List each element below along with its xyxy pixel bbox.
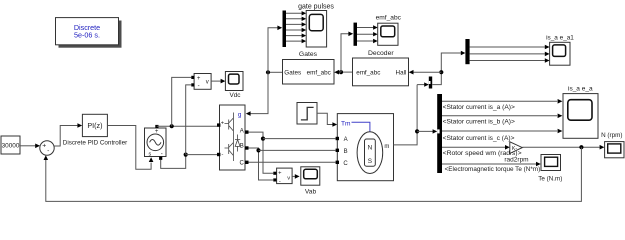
svg-text:-: -: [47, 148, 49, 155]
source - port square: [159, 157, 162, 160]
wire stator current is_b: [442, 115, 557, 117]
scope Vdc: [225, 72, 243, 91]
svg-text:v: v: [206, 80, 209, 86]
svg-text:Gates: Gates: [284, 69, 301, 76]
wire bridge C to motor C: [249, 161, 336, 163]
node emf: [339, 70, 343, 74]
voltage measurement Vdc block: [194, 74, 211, 90]
scope is_a e_a1: [550, 42, 570, 65]
node m branch: [415, 129, 419, 133]
wire node B to motor B: [259, 149, 336, 151]
node speed feedback: [579, 145, 583, 149]
sum junction: [40, 141, 54, 155]
display Te (N.m): [541, 155, 561, 171]
gate pulse signal wires (6): [286, 13, 302, 41]
BLDC motor (PMSM) block: [337, 114, 393, 181]
wire node A to motor A: [263, 138, 336, 140]
wire bridge A to motor A and Vab +: [249, 132, 274, 173]
wire Vab meas to scope: [292, 175, 295, 177]
scope is_a e_a: [563, 94, 598, 139]
svg-text:B: B: [344, 149, 348, 155]
node minus-bus: [184, 153, 188, 157]
DC plus bus wire: [157, 125, 217, 127]
svg-text:Tm: Tm: [341, 121, 351, 128]
wire m to hall selector input: [417, 84, 424, 86]
svg-text:Decoder: Decoder: [368, 50, 394, 57]
svg-text:A: A: [344, 137, 348, 143]
svg-text:-: -: [198, 84, 200, 90]
gain rad2rpm: [510, 142, 523, 154]
svg-text:-: -: [221, 152, 223, 158]
hall bus selector (small): [429, 77, 432, 89]
wire rotor speed: [442, 146, 506, 148]
svg-text:emf_abc: emf_abc: [376, 15, 402, 22]
svg-text:N: N: [368, 144, 373, 151]
wire Gates output to node: [268, 71, 283, 73]
svg-text:S: S: [368, 158, 372, 165]
wire stator current is_a: [442, 100, 557, 102]
wire Vdc meas to scope: [211, 80, 221, 82]
wire node down to bridge g input: [250, 72, 268, 113]
svg-text:C: C: [343, 161, 348, 167]
powergui block shadow: [59, 21, 122, 48]
motor rotor ellipse: [357, 132, 383, 174]
svg-text:is_a e_a: is_a e_a: [568, 86, 593, 93]
motor port squares A B C: [336, 137, 339, 140]
source + port square: [155, 125, 158, 128]
wire node into Gates emf_abc: [339, 71, 341, 73]
svg-text:<Electromagnetic torque Te (N*: <Electromagnetic torque Te (N*m)>: [445, 166, 545, 173]
svg-text:K-: K-: [512, 146, 517, 152]
constant block 30000: [1, 136, 20, 154]
svg-text:emf_abc: emf_abc: [356, 69, 380, 76]
wire sum to PI(z): [54, 126, 77, 147]
motor magnet N/S: [365, 139, 376, 166]
svg-text:+: +: [221, 121, 224, 127]
svg-text:emf_abc: emf_abc: [307, 69, 331, 76]
svg-text:m: m: [384, 144, 389, 150]
svg-text:is_a e_a1: is_a e_a1: [546, 34, 574, 41]
svg-text:Vdc: Vdc: [229, 92, 241, 99]
wire node up to emf mux: [341, 34, 349, 72]
node phase B tap: [256, 148, 260, 152]
motor Tm blue elbow: [352, 122, 370, 131]
controlled voltage source U_dc: [145, 128, 167, 157]
voltage measurement Vab block: [277, 168, 293, 184]
bridge port squares: [217, 123, 220, 126]
wire 30000 to sum: [20, 145, 36, 147]
wire gain to N display: [522, 146, 599, 148]
scope Vab: [301, 167, 320, 185]
svg-text:<Stator current is_b (A)>: <Stator current is_b (A)>: [443, 119, 515, 126]
wire node up to gate-pulses mux: [268, 28, 278, 73]
svg-text:Te (N.m): Te (N.m): [538, 176, 562, 183]
node phase A tap: [261, 137, 265, 141]
svg-text:PI(z): PI(z): [87, 121, 102, 130]
svg-text:30000: 30000: [2, 143, 20, 150]
scope emf_abc: [378, 23, 398, 45]
subsystem Decoder: [353, 58, 409, 86]
svg-text:Hall: Hall: [396, 69, 407, 76]
wire bridge B to motor B and Vab -: [249, 148, 274, 180]
node gates: [266, 70, 270, 74]
emf mux to scope wires (3): [357, 28, 373, 42]
svg-text:C: C: [240, 160, 245, 166]
svg-text:Gates: Gates: [299, 51, 318, 58]
wire hall selector output up to demux: [432, 53, 461, 85]
node plus-bus: [170, 124, 174, 128]
svg-text:s: s: [148, 152, 151, 158]
demux for is_a e_a1 scope: [465, 39, 469, 64]
subsystem Gates: [283, 60, 335, 85]
mux for gate pulses scope: [283, 11, 287, 48]
svg-text:5e-06 s.: 5e-06 s.: [74, 31, 100, 40]
svg-text:+: +: [42, 143, 46, 150]
wire motor m to bus selector: [394, 85, 418, 145]
svg-text:g: g: [238, 112, 242, 119]
svg-text:Vab: Vab: [305, 188, 317, 195]
svg-text:gate pulses: gate pulses: [298, 4, 334, 11]
powergui block Discrete 5e-06 s.: [56, 18, 119, 45]
wire plus bus to Vdc +: [172, 77, 192, 126]
wire step to motor Tm: [317, 113, 333, 124]
svg-text:rad2rpm: rad2rpm: [504, 157, 528, 164]
step block (load torque): [297, 103, 317, 125]
node hall: [439, 70, 443, 74]
wire decoder emf_abc to node: [341, 71, 353, 73]
scope gate pulses: [306, 11, 326, 48]
display N (rpm): [605, 142, 624, 158]
svg-text:A: A: [240, 129, 244, 135]
wire stator current is_c: [442, 130, 557, 132]
PI(z) Discrete PID Controller: [82, 114, 107, 136]
mux for emf_abc scope: [354, 23, 358, 46]
svg-text:N (rpm): N (rpm): [601, 132, 622, 139]
bridge icon IGBT and diode: [225, 113, 241, 162]
DC minus bus wire: [186, 154, 218, 156]
demux to scope wires (3): [470, 47, 545, 61]
svg-text:-: -: [279, 179, 281, 185]
wire electromagnetic torque: [442, 163, 536, 165]
svg-text:<Stator current is_a (A)>: <Stator current is_a (A)>: [443, 104, 515, 111]
svg-text:<Stator current is_c (A)>: <Stator current is_c (A)>: [443, 135, 515, 142]
svg-text:v: v: [287, 175, 290, 181]
bus selector (motor measurements): [437, 94, 442, 173]
universal bridge (MOSFET inverter): [220, 105, 246, 170]
wire minus bus to Vdc -: [186, 85, 192, 155]
svg-text:Discrete PID Controller: Discrete PID Controller: [63, 139, 127, 146]
wire PI(z) to source s input: [107, 126, 151, 170]
wire m node to bus selector input: [417, 130, 433, 132]
wire node hall to decoder Hall input: [413, 71, 441, 73]
DC minus route from source: [161, 155, 186, 169]
svg-text:+: +: [197, 76, 201, 82]
feedback wire speed to sum: [46, 147, 582, 201]
